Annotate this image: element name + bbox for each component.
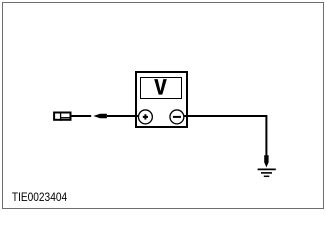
ground arrow (pointing down) [264, 155, 268, 167]
voltmeter display window [141, 78, 182, 99]
minus terminal circle [170, 110, 184, 124]
direction arrow (pointing left) on wire [93, 114, 107, 119]
ground bar 3 [264, 175, 270, 177]
wire: voltmeter minus terminal to corner then down to ground [177, 116, 267, 158]
plus terminal circle [138, 110, 152, 124]
connector J1 (test probe) [54, 112, 71, 121]
ground bar 2 [261, 172, 272, 174]
ground bar 1 [258, 168, 276, 170]
minus sign [173, 116, 181, 118]
wire: connector to arrow [71, 115, 91, 117]
svg-text:TIE0023404: TIE0023404 [12, 190, 67, 204]
voltmeter U1 box [136, 72, 187, 127]
plus sign [143, 114, 148, 119]
wire: arrow to voltmeter plus terminal [107, 115, 145, 117]
voltmeter V label [154, 79, 167, 95]
